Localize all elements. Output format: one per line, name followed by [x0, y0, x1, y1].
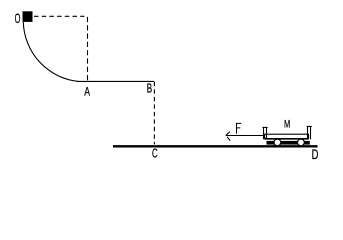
svg-text:B: B — [147, 82, 152, 96]
svg-text:C: C — [152, 147, 158, 161]
svg-text:D: D — [312, 146, 319, 162]
svg-text:M: M — [284, 118, 290, 130]
cart axle bar — [267, 141, 310, 145]
force arrow F pulling cart left — [226, 132, 264, 141]
svg-text:O: O — [15, 10, 21, 26]
dashed vertical line down to A — [87, 17, 89, 81]
block at top of ramp — [23, 11, 33, 22]
dashed vertical line B to C — [153, 82, 155, 144]
svg-text:A: A — [84, 84, 90, 98]
curved ramp O to A — [23, 22, 78, 81]
cart right end post — [307, 126, 312, 139]
cart platform — [265, 134, 309, 139]
cart right wheel — [298, 139, 305, 146]
label F — [236, 123, 241, 134]
ground line — [113, 145, 318, 147]
track A to B — [77, 80, 154, 82]
cart left end post — [262, 127, 267, 139]
cart left wheel — [274, 139, 281, 146]
dashed horizontal line from block to above A — [34, 15, 84, 17]
cart platform thick bottom edge — [265, 138, 309, 140]
